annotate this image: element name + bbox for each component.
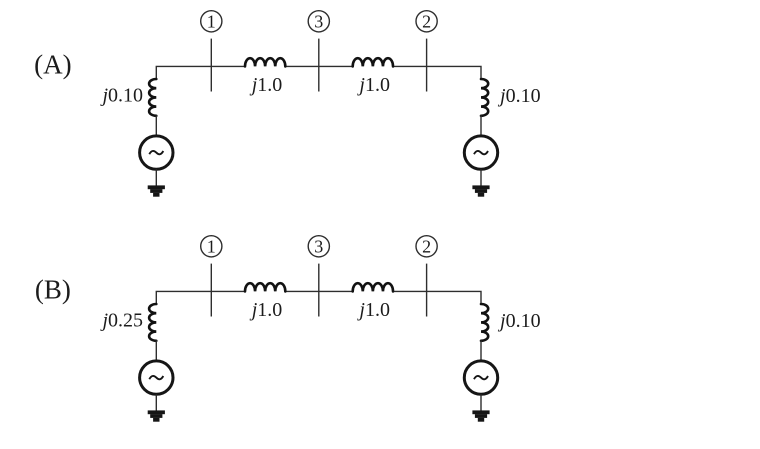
bus bar 2 (circuit B): [426, 264, 428, 317]
wire line inductor 2 to bus2 drop (circuit B): [393, 291, 481, 303]
inductor j1.0 left line (circuit B): [245, 283, 285, 291]
wire bus1 to line inductor 1 (circuit B): [156, 291, 245, 303]
node 2 (bus 2 label, circuit A): [416, 11, 437, 32]
inductor j0.25 generator left (circuit B): [149, 304, 156, 341]
wire between line inductors (circuit B): [285, 290, 352, 292]
svg-text:2: 2: [422, 12, 431, 32]
inductor j1.0 left line (circuit A): [245, 58, 285, 66]
svg-text:1: 1: [207, 237, 216, 257]
node 1 (bus 1 label, circuit B): [201, 236, 222, 257]
node 2 (bus 2 label, circuit B): [416, 236, 437, 257]
inductor j0.10 generator right (circuit A): [481, 79, 488, 116]
wire inductor to generator right (circuit A): [480, 115, 482, 136]
inductor j0.10 generator left (circuit A): [149, 79, 156, 116]
svg-text:j0.25: j0.25: [99, 310, 143, 332]
bus bar 2 (circuit A): [426, 39, 428, 92]
svg-text:j0.10: j0.10: [497, 85, 541, 107]
wire inductor to generator left (circuit B): [155, 340, 157, 361]
bus bar 1 (circuit A): [210, 39, 212, 92]
wire inductor to generator right (circuit B): [480, 340, 482, 361]
ground left (circuit A): [148, 185, 165, 196]
wire inductor to generator left (circuit A): [155, 115, 157, 136]
wire line inductor 2 to bus2 drop (circuit A): [393, 66, 481, 78]
generator G2 right (circuit A): [464, 136, 497, 169]
bus bar 1 (circuit B): [210, 264, 212, 317]
svg-text:j1.0: j1.0: [249, 74, 283, 96]
svg-text:j0.10: j0.10: [497, 310, 541, 332]
bus bar 3 (circuit A): [318, 39, 320, 92]
node 3 (bus 3 label, circuit B): [308, 236, 329, 257]
svg-text:j1.0: j1.0: [249, 299, 283, 321]
inductor j0.10 generator right (circuit B): [481, 304, 488, 341]
wire generator to ground left (circuit B): [155, 394, 157, 411]
svg-text:3: 3: [314, 12, 323, 32]
node 1 (bus 1 label, circuit A): [201, 11, 222, 32]
ground right (circuit B): [472, 410, 489, 421]
svg-text:(A): (A): [34, 50, 71, 80]
svg-text:j1.0: j1.0: [356, 74, 390, 96]
ground right (circuit A): [472, 185, 489, 196]
ground left (circuit B): [148, 410, 165, 421]
bus bar 3 (circuit B): [318, 264, 320, 317]
node 3 (bus 3 label, circuit A): [308, 11, 329, 32]
wire between line inductors (circuit A): [285, 65, 352, 67]
inductor j1.0 right line (circuit A): [353, 58, 393, 66]
generator G1 left (circuit B): [140, 361, 173, 394]
wire generator to ground right (circuit A): [480, 169, 482, 186]
svg-text:(B): (B): [35, 275, 71, 305]
generator G1 left (circuit A): [140, 136, 173, 169]
svg-text:1: 1: [207, 12, 216, 32]
svg-text:j0.10: j0.10: [99, 85, 143, 107]
svg-text:2: 2: [422, 237, 431, 257]
wire generator to ground right (circuit B): [480, 394, 482, 411]
svg-text:j1.0: j1.0: [356, 299, 390, 321]
svg-text:3: 3: [314, 237, 323, 257]
wire generator to ground left (circuit A): [155, 169, 157, 186]
inductor j1.0 right line (circuit B): [353, 283, 393, 291]
wire bus1 to line inductor 1 (circuit A): [156, 66, 245, 78]
generator G2 right (circuit B): [464, 361, 497, 394]
